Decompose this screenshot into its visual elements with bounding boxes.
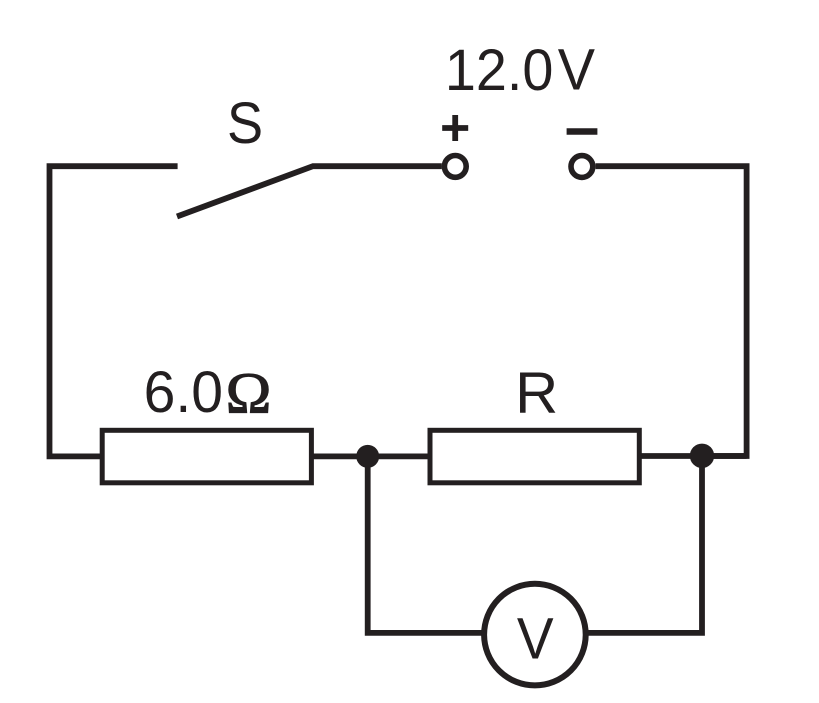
svg-text:V: V xyxy=(517,606,554,671)
wire: top-left loop (top wire, left vertical, into middle wire) xyxy=(50,166,178,456)
voltmeter circle xyxy=(484,584,586,686)
minus sign xyxy=(567,128,598,135)
switch S blade and wire to + terminal xyxy=(177,166,442,216)
svg-text:R: R xyxy=(515,361,558,425)
wire: middle between resistors xyxy=(311,453,430,459)
svg-text:Ω: Ω xyxy=(226,361,272,425)
plus sign xyxy=(442,115,468,141)
node left junction dot xyxy=(356,445,379,468)
svg-text:12.0: 12.0 xyxy=(445,39,553,103)
resistor R box xyxy=(430,430,639,483)
wire: right sense lead down to voltmeter xyxy=(586,456,702,633)
wire: top-right loop (from - terminal, right vertical, into middle wire) xyxy=(596,166,747,456)
node right junction dot xyxy=(690,444,714,468)
svg-text:6.0: 6.0 xyxy=(144,361,223,425)
wire: right of resistor R xyxy=(639,453,747,459)
resistor 6.0 ohm box xyxy=(102,430,311,483)
wire: left sense lead down to voltmeter xyxy=(368,456,484,633)
terminal circle + xyxy=(444,156,466,178)
svg-text:S: S xyxy=(227,90,263,155)
svg-text:V: V xyxy=(558,38,595,103)
terminal circle - xyxy=(571,156,593,178)
